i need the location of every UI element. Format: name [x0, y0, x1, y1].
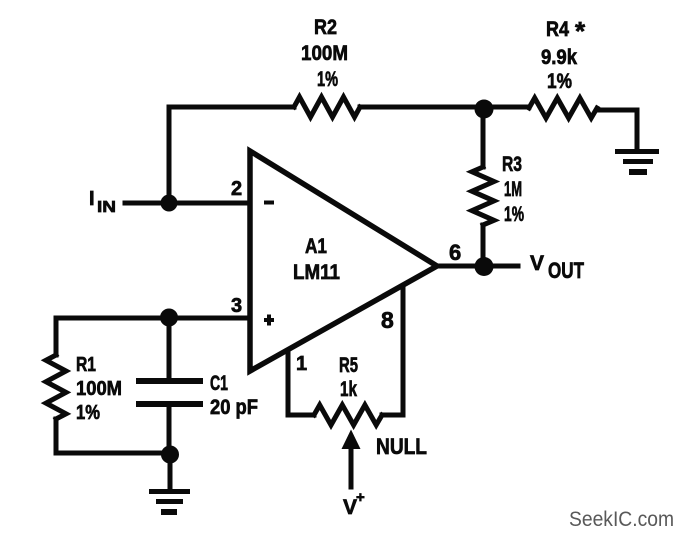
- svg-text:SeekIC.com: SeekIC.com: [569, 508, 674, 531]
- svg-text:9.9k: 9.9k: [541, 46, 577, 69]
- svg-text:R3: R3: [502, 153, 522, 176]
- svg-text:NULL: NULL: [376, 434, 427, 459]
- svg-text:1k: 1k: [340, 378, 357, 401]
- svg-text:100M: 100M: [301, 42, 348, 65]
- svg-text:C1: C1: [210, 372, 228, 395]
- svg-text:R4: R4: [546, 18, 569, 41]
- svg-text:1M: 1M: [504, 178, 522, 201]
- svg-text:8: 8: [381, 307, 394, 333]
- svg-text:LM11: LM11: [293, 261, 340, 284]
- svg-text:20 pF: 20 pF: [210, 396, 258, 419]
- svg-text:*: *: [575, 16, 586, 46]
- svg-text:1: 1: [296, 353, 307, 375]
- svg-text:IN: IN: [97, 199, 116, 216]
- svg-text:OUT: OUT: [548, 258, 584, 283]
- svg-text:R5: R5: [339, 354, 358, 377]
- svg-text:100M: 100M: [76, 378, 122, 400]
- svg-text:V: V: [343, 496, 357, 519]
- svg-text:1%: 1%: [547, 70, 572, 93]
- svg-text:1%: 1%: [317, 68, 338, 91]
- svg-text:R2: R2: [314, 16, 337, 39]
- svg-text:1%: 1%: [76, 402, 100, 424]
- svg-text:3: 3: [231, 295, 242, 317]
- svg-text:1%: 1%: [504, 203, 524, 226]
- svg-text:6: 6: [449, 240, 461, 265]
- svg-text:V: V: [530, 252, 544, 275]
- svg-text:I: I: [89, 188, 95, 210]
- svg-text:2: 2: [231, 178, 242, 200]
- svg-text:A1: A1: [305, 235, 327, 258]
- svg-text:+: +: [356, 489, 365, 506]
- svg-text:R1: R1: [76, 354, 96, 376]
